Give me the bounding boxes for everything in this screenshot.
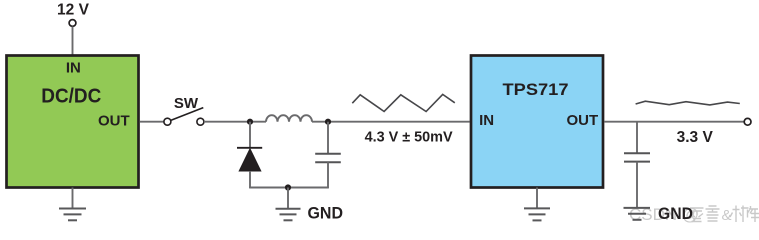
wire DC/DC bottom to ground: [72, 188, 74, 209]
ground under TPS717: [524, 208, 550, 220]
wire TPS717 OUT to output terminal: [604, 121, 744, 123]
switch SW: [164, 95, 204, 125]
svg-text:IN: IN: [66, 60, 81, 77]
node junction bottom rail to ground: [285, 184, 291, 190]
wire output cap branch: [636, 122, 638, 154]
svg-text:OUT: OUT: [566, 112, 598, 129]
wire inductor to TPS717 IN: [312, 121, 470, 123]
svg-text:SW: SW: [174, 95, 199, 112]
node output terminal: [744, 118, 751, 125]
svg-text:DC/DC: DC/DC: [41, 85, 101, 107]
node junction at output cap tap: [325, 119, 331, 125]
wire TPS717 bottom to ground: [536, 188, 538, 209]
svg-text:4.3 V ± 50mV: 4.3 V ± 50mV: [365, 129, 454, 146]
inductor L1: [266, 115, 312, 121]
wire bottom rail: [249, 187, 328, 189]
ripple waveform triangle wave: [352, 94, 455, 111]
wire diode branch upper: [249, 122, 251, 148]
smooth output waveform: [636, 101, 740, 105]
svg-text:TPS717: TPS717: [503, 80, 569, 99]
svg-text:&: &: [722, 207, 732, 224]
node junction at diode tap: [247, 119, 253, 125]
diode D1 catch diode: [237, 148, 262, 171]
ground mid rail: [276, 209, 301, 221]
wire cap to bottom rail: [327, 162, 329, 188]
dc-dc converter block: [7, 56, 139, 188]
wire mid-ground stem: [287, 188, 289, 209]
watermark CSDN text: [629, 205, 699, 224]
capacitor C2 output: [624, 153, 650, 161]
LDO regulator TPS717 block: [471, 56, 603, 188]
ground output: [624, 208, 651, 220]
wire switch to inductor: [204, 121, 266, 123]
svg-text:12 V: 12 V: [57, 1, 90, 18]
node 12V input terminal: [57, 1, 90, 26]
ground under DC/DC: [59, 209, 86, 221]
svg-text:IN: IN: [479, 112, 494, 129]
wire 12V to DC/DC IN: [72, 27, 74, 56]
svg-text:GND: GND: [308, 204, 344, 223]
wire output cap to ground: [636, 162, 638, 208]
svg-text:GND: GND: [658, 204, 693, 223]
capacitor C1: [315, 154, 341, 162]
wire DC/DC OUT to switch: [140, 121, 164, 123]
svg-text:OUT: OUT: [98, 112, 130, 129]
svg-text:3.3 V: 3.3 V: [677, 129, 714, 146]
watermark CJK glyphs: [690, 206, 759, 223]
wire cap branch upper: [327, 122, 329, 154]
wire diode to bottom rail: [249, 171, 251, 188]
